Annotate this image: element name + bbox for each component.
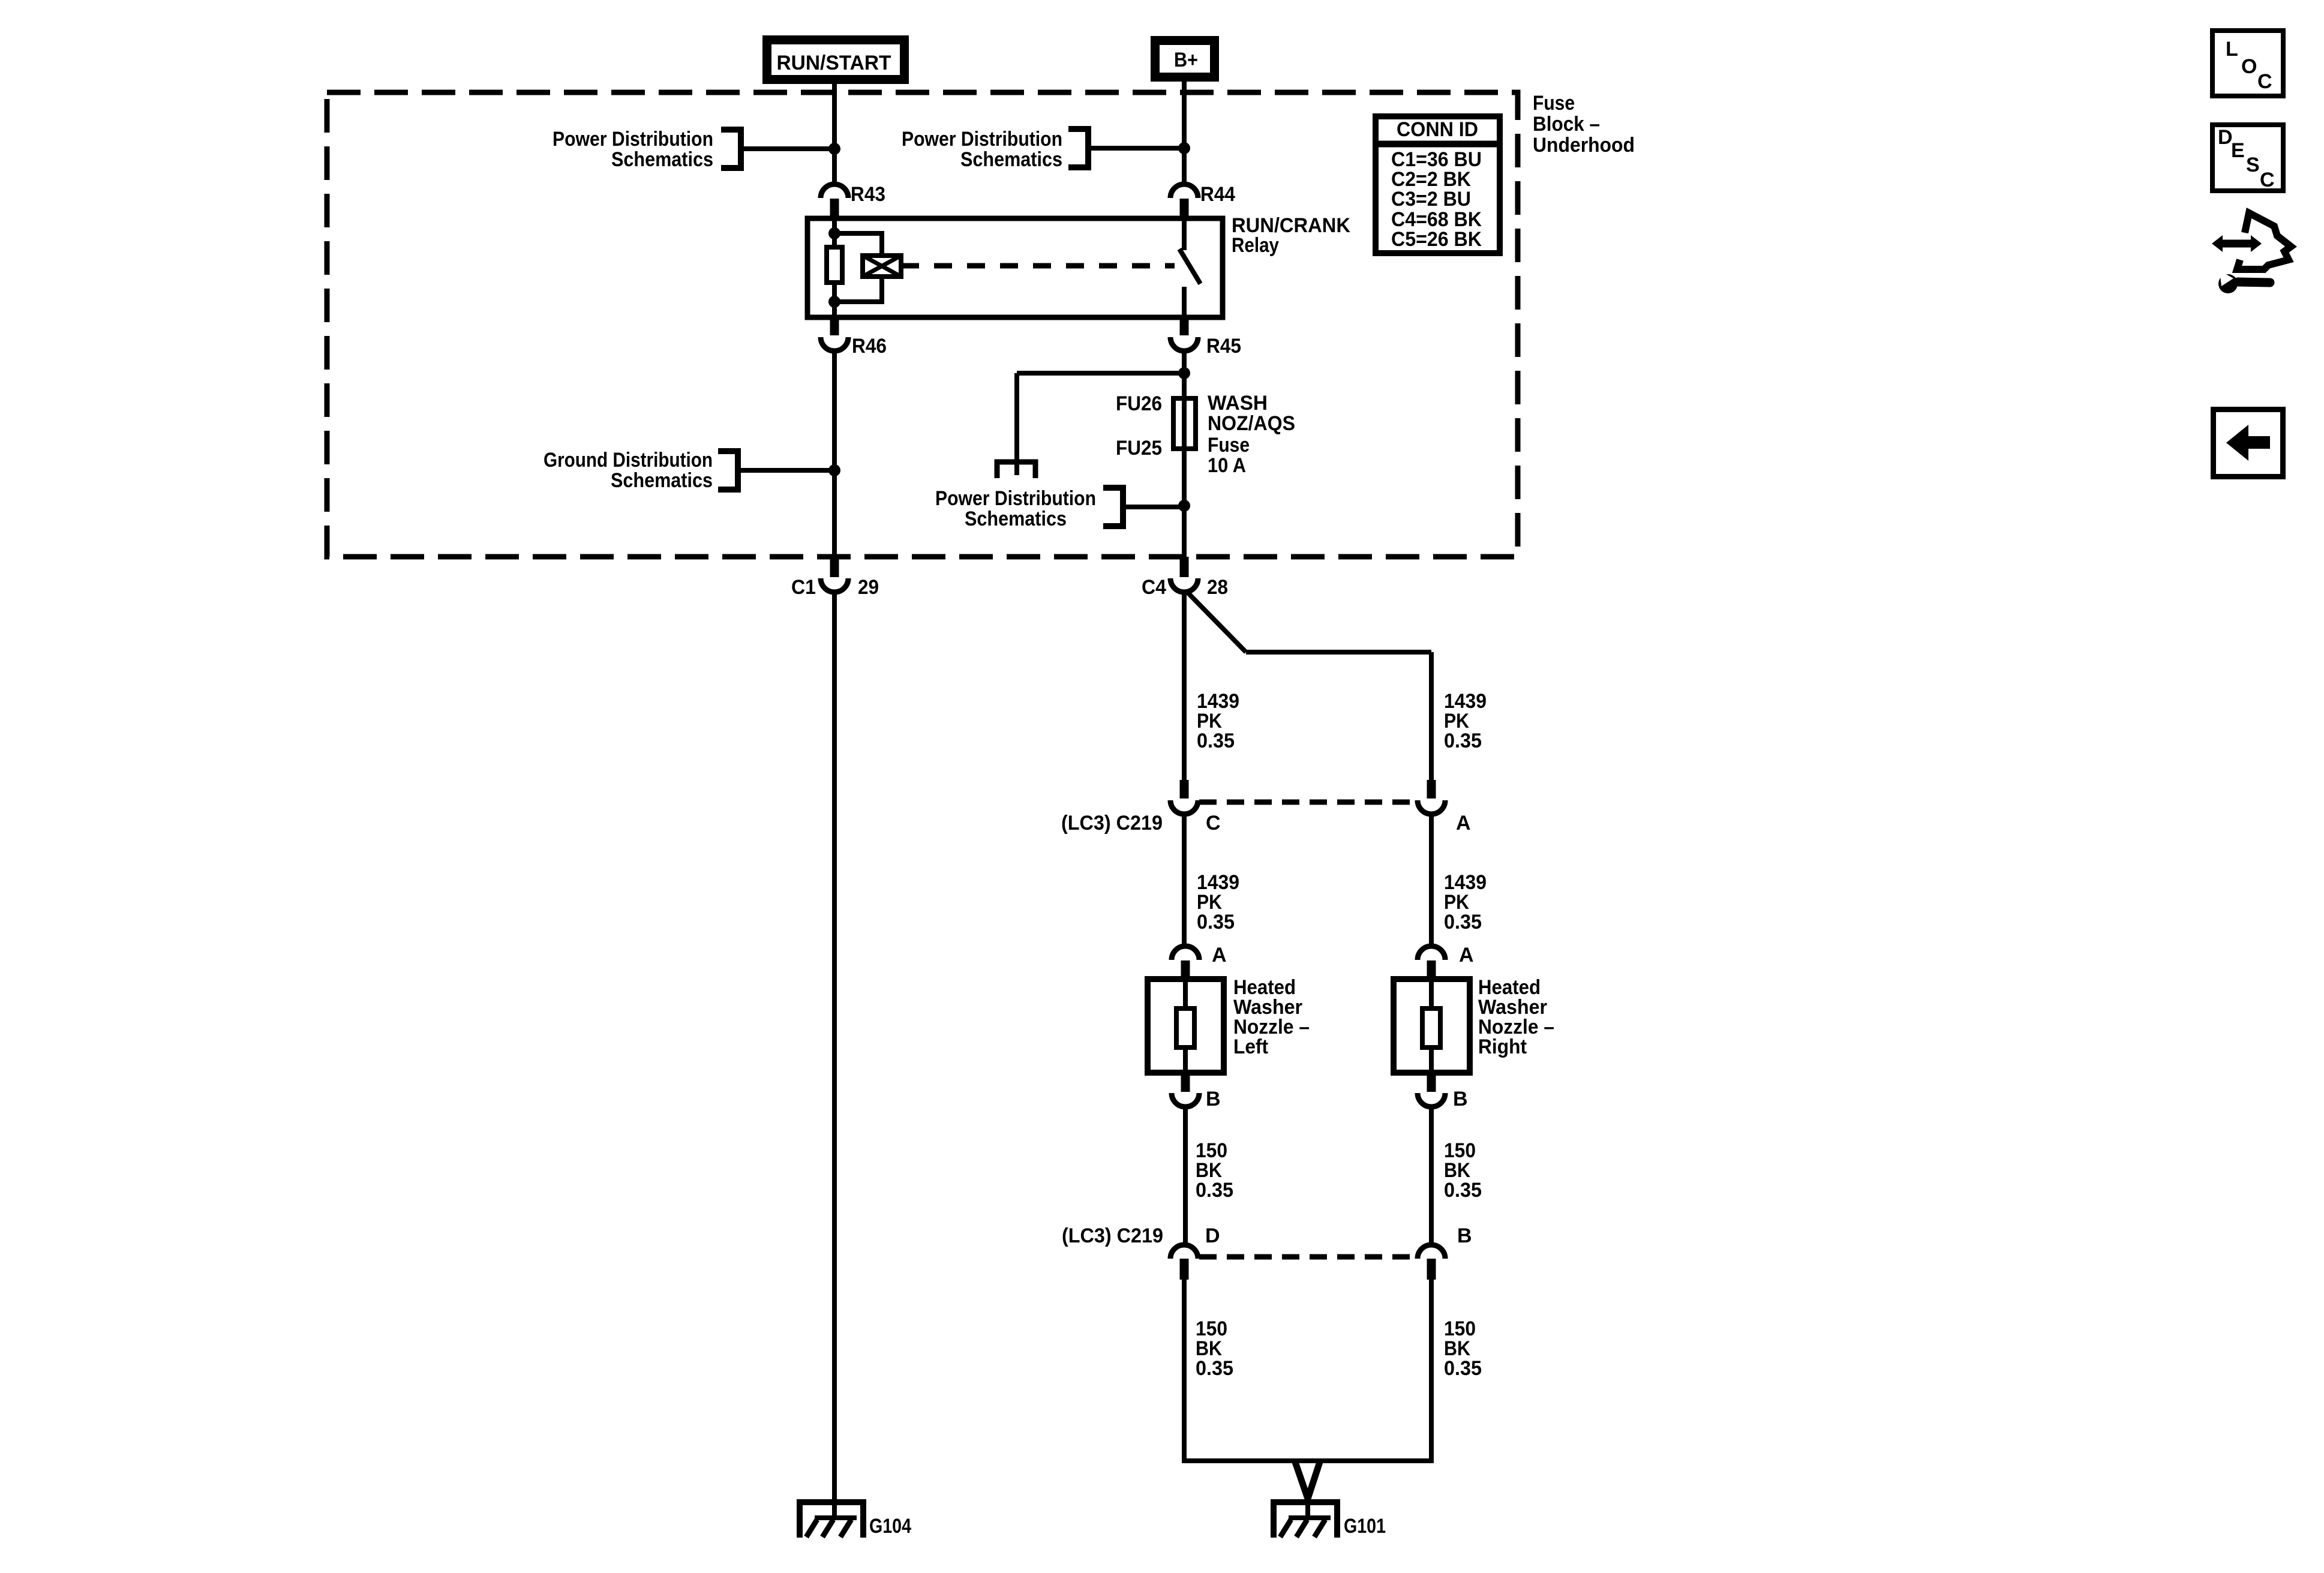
svg-text:(LC3) C219: (LC3) C219 <box>1062 1224 1163 1247</box>
svg-text:FU25: FU25 <box>1116 437 1162 460</box>
svg-text:Schematics: Schematics <box>960 148 1062 171</box>
svg-text:Left: Left <box>1233 1035 1268 1058</box>
svg-text:R44: R44 <box>1200 183 1235 206</box>
svg-text:B: B <box>1453 1088 1468 1110</box>
svg-text:Schematics: Schematics <box>611 469 713 492</box>
svg-text:E: E <box>2231 139 2245 162</box>
svg-text:0.35: 0.35 <box>1444 730 1482 752</box>
svg-text:CONN ID: CONN ID <box>1397 118 1478 141</box>
svg-text:R43: R43 <box>851 183 885 206</box>
svg-text:0.35: 0.35 <box>1196 1179 1233 1202</box>
svg-text:FU26: FU26 <box>1116 392 1162 415</box>
svg-text:D: D <box>1205 1224 1220 1247</box>
svg-text:C3=2 BU: C3=2 BU <box>1391 188 1471 211</box>
svg-text:Power Distribution: Power Distribution <box>935 487 1096 510</box>
svg-text:Schematics: Schematics <box>611 148 713 171</box>
svg-text:0.35: 0.35 <box>1197 730 1235 752</box>
svg-text:28: 28 <box>1207 576 1228 599</box>
svg-text:R46: R46 <box>852 335 887 358</box>
svg-text:0.35: 0.35 <box>1197 911 1235 933</box>
svg-text:A: A <box>1459 944 1474 966</box>
svg-text:NOZ/AQS: NOZ/AQS <box>1208 412 1295 435</box>
svg-text:G104: G104 <box>869 1515 911 1538</box>
svg-text:C5=26 BK: C5=26 BK <box>1391 228 1482 251</box>
svg-text:0.35: 0.35 <box>1196 1357 1233 1380</box>
svg-text:Power Distribution: Power Distribution <box>553 128 713 151</box>
svg-text:Relay: Relay <box>1232 234 1279 257</box>
svg-text:Underhood: Underhood <box>1533 134 1635 157</box>
svg-text:0.35: 0.35 <box>1444 911 1482 933</box>
svg-text:A: A <box>1456 812 1471 834</box>
svg-text:Block –: Block – <box>1533 113 1600 136</box>
svg-text:C: C <box>2257 70 2272 93</box>
svg-text:Power Distribution: Power Distribution <box>902 128 1062 151</box>
svg-text:29: 29 <box>858 576 879 599</box>
svg-text:B: B <box>1206 1088 1221 1110</box>
svg-text:Schematics: Schematics <box>965 508 1067 530</box>
svg-text:Fuse: Fuse <box>1533 92 1575 115</box>
svg-text:WASH: WASH <box>1208 392 1268 415</box>
svg-text:10 A: 10 A <box>1208 454 1246 477</box>
svg-text:RUN/START: RUN/START <box>777 52 891 74</box>
svg-text:B: B <box>1457 1224 1472 1247</box>
svg-text:O: O <box>2241 55 2257 78</box>
svg-text:Fuse: Fuse <box>1208 434 1250 457</box>
svg-text:Ground Distribution: Ground Distribution <box>544 449 713 472</box>
svg-text:C4: C4 <box>1142 576 1166 599</box>
svg-text:G101: G101 <box>1344 1515 1386 1538</box>
svg-text:0.35: 0.35 <box>1444 1357 1482 1380</box>
svg-text:C: C <box>2260 169 2275 191</box>
svg-text:(LC3) C219: (LC3) C219 <box>1061 812 1163 834</box>
svg-text:0.35: 0.35 <box>1444 1179 1482 1202</box>
svg-text:Right: Right <box>1478 1035 1527 1058</box>
svg-text:S: S <box>2246 154 2260 176</box>
svg-text:B+: B+ <box>1174 49 1198 71</box>
svg-text:C: C <box>1206 812 1221 834</box>
svg-text:C1: C1 <box>791 576 816 599</box>
svg-text:A: A <box>1212 944 1227 966</box>
svg-text:D: D <box>2218 126 2233 149</box>
svg-text:R45: R45 <box>1206 335 1241 358</box>
svg-text:L: L <box>2226 38 2238 61</box>
